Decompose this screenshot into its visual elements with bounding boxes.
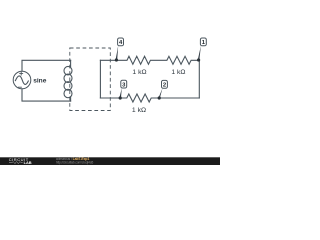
wire: right loop right vertical xyxy=(198,60,200,98)
plus sign xyxy=(20,72,23,75)
node 1 dot xyxy=(197,58,200,61)
node 2 flag xyxy=(162,80,168,88)
node numbers xyxy=(119,40,206,88)
node 3 tail xyxy=(119,88,121,98)
node 4 dot xyxy=(115,58,118,61)
minus sign xyxy=(18,86,21,88)
svg-text:sine: sine xyxy=(33,78,47,85)
node flag boxes xyxy=(118,38,207,88)
component value labels xyxy=(33,69,185,114)
svg-text:1 kΩ: 1 kΩ xyxy=(132,107,146,114)
svg-text:LAB: LAB xyxy=(24,160,32,165)
footer caption xyxy=(56,157,94,164)
wire: left loop bottom xyxy=(22,89,71,101)
wire: right loop left vertical xyxy=(99,60,101,98)
sine glyph inside source xyxy=(15,76,28,85)
node 3 flag xyxy=(121,80,127,88)
wire: left loop top xyxy=(22,60,71,71)
node 4 tail xyxy=(116,46,119,60)
svg-text:http://circuitlab.com/c/uqt4a5: http://circuitlab.com/c/uqt4a5 xyxy=(56,160,94,164)
node 1 flag xyxy=(200,38,206,46)
CircuitLab logo text xyxy=(9,157,32,165)
node 2 dot xyxy=(158,96,161,99)
wire: right loop top with resistor R1 and R2 xyxy=(100,56,199,64)
footer bar xyxy=(0,157,220,165)
node flag tails xyxy=(116,46,201,98)
voltage source V1 circle xyxy=(13,71,31,89)
node 1 tail xyxy=(198,46,201,60)
wire: right loop bottom with resistor R3 xyxy=(100,94,199,102)
junction dots xyxy=(115,58,200,99)
svg-text:1 kΩ: 1 kΩ xyxy=(132,69,146,76)
inductor L1 xyxy=(70,60,72,66)
node 4 flag xyxy=(118,38,124,46)
node 3 dot xyxy=(119,96,122,99)
svg-text:1 kΩ: 1 kΩ xyxy=(171,69,185,76)
dashed annotation box xyxy=(70,48,111,111)
node 2 tail xyxy=(159,88,163,98)
